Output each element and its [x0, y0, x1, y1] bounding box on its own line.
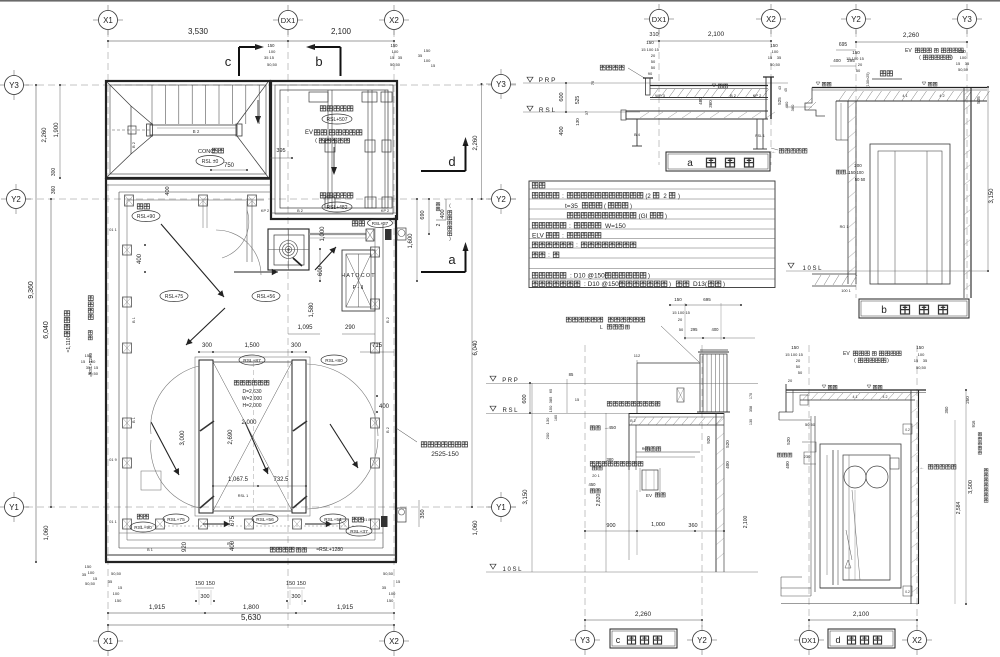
overflow pipe upper right wall	[397, 228, 406, 240]
svg-text:RSL+56: RSL+56	[256, 517, 274, 523]
svg-text:RSL+80: RSL+80	[325, 358, 343, 364]
svg-text:Y1: Y1	[9, 503, 19, 512]
main roof left wall outer	[105, 178, 107, 562]
cubicle center dashed line	[253, 362, 255, 511]
grid line Y2 section b	[855, 30, 857, 298]
section c wall verticals below room	[628, 470, 630, 560]
svg-text:RSL+75: RSL+75	[167, 517, 185, 523]
svg-text:B 1: B 1	[132, 317, 136, 323]
dim ticks rows bottom	[198, 590, 200, 605]
svg-text:400: 400	[165, 186, 171, 195]
svg-text:RSL 1: RSL 1	[238, 494, 248, 498]
svg-text:35 15: 35 15	[264, 55, 275, 60]
svg-text:RSL+482: RSL+482	[327, 205, 348, 211]
label RSL+75 ellipse	[160, 291, 188, 302]
svg-text:3,500: 3,500	[968, 480, 974, 494]
grid line X2 section d	[916, 345, 918, 628]
railing line right	[374, 228, 376, 540]
cubicle dim line top	[199, 351, 306, 353]
label RSL+507 ellipse	[322, 114, 352, 124]
section b 10SL line	[786, 270, 988, 272]
slope arrow horizontal to drain	[234, 271, 278, 273]
grid line X2 section a	[770, 30, 772, 165]
svg-text:675: 675	[230, 515, 236, 526]
svg-text:RSL+51: RSL+51	[324, 517, 342, 523]
svg-text:150: 150	[85, 564, 92, 569]
section a roof slab top line	[650, 85, 768, 87]
svg-text:2,820: 2,820	[596, 494, 602, 507]
svg-text:150: 150	[958, 49, 966, 54]
svg-text:65: 65	[548, 388, 553, 393]
dim line 1915-1800-1915	[108, 612, 394, 614]
section d machine outer box	[820, 444, 901, 588]
svg-text:3,000: 3,000	[180, 430, 186, 446]
svg-text:480: 480	[784, 101, 789, 108]
svg-text:520: 520	[786, 437, 791, 445]
svg-text:112: 112	[634, 353, 641, 358]
svg-text:P R P: P R P	[502, 378, 518, 384]
svg-text:(GI: (GI	[638, 213, 647, 220]
section c sekichou label upper	[607, 401, 660, 406]
svg-text:): )	[630, 204, 632, 210]
svg-text:916: 916	[971, 420, 976, 428]
svg-text:90: 90	[648, 71, 653, 76]
svg-text:d: d	[835, 635, 840, 645]
grid line Y3 section b	[966, 30, 968, 298]
notes table row lines	[529, 188, 775, 190]
svg-text:—: —	[846, 170, 850, 175]
svg-text:50 50: 50 50	[855, 177, 866, 182]
section a right column	[756, 119, 758, 149]
section b roof top line	[812, 87, 987, 89]
svg-text:B 2: B 2	[630, 419, 635, 423]
svg-text:2,584: 2,584	[956, 502, 962, 515]
section c EV roof hatched	[629, 424, 724, 426]
section b roof second line	[812, 89, 987, 91]
section a I-beam left	[632, 118, 642, 120]
svg-text:15 100 15: 15 100 15	[785, 352, 804, 357]
svg-text:X2: X2	[912, 636, 922, 645]
scupper dark block bottom-right	[381, 516, 388, 527]
svg-text:35: 35	[923, 358, 928, 363]
section d roof level texts	[822, 385, 826, 388]
svg-text:15: 15	[390, 55, 395, 60]
svg-text:←: ←	[772, 149, 777, 155]
section c EV roof slab	[629, 413, 724, 415]
svg-text:=RSL+1280: =RSL+1280	[316, 547, 343, 553]
grid line Y1 horizontal	[26, 506, 516, 508]
door arc upper-right	[307, 364, 378, 436]
grid bubble Y3 top-section-b	[952, 18, 982, 20]
section a left parapet cap	[643, 77, 653, 79]
svg-text:B 2: B 2	[193, 129, 200, 134]
stair block inner wall line	[110, 85, 266, 174]
svg-text:W=150: W=150	[605, 223, 626, 230]
section c door bracket	[640, 468, 660, 492]
section b left overhang gutter	[805, 88, 825, 117]
svg-text:400: 400	[833, 58, 841, 63]
section c 10SL line	[486, 571, 758, 573]
grid line Y2 section c	[701, 345, 703, 628]
section c RSL level	[490, 406, 496, 411]
section d step detail mid	[802, 442, 816, 464]
roof drain outer square	[268, 229, 309, 270]
section a slab bottom line	[650, 99, 768, 101]
svg-text:400: 400	[559, 126, 565, 135]
svg-text:50,50: 50,50	[111, 571, 122, 576]
svg-text:: D10 @150(: : D10 @150(	[570, 273, 608, 280]
section a canopy leftcap	[621, 110, 626, 120]
svg-text:100: 100	[88, 570, 95, 575]
svg-text:2: 2	[436, 223, 442, 226]
grid line DX1 vertical plan	[287, 30, 289, 628]
svg-text:2,100: 2,100	[743, 516, 749, 529]
svg-text:2,690: 2,690	[228, 429, 234, 445]
svg-text:R S L: R S L	[502, 408, 518, 414]
svg-text:300: 300	[202, 343, 213, 349]
svg-text:5,630: 5,630	[241, 613, 262, 622]
main roof bottom wall second line	[106, 554, 396, 556]
section d right wall hatch	[911, 392, 919, 398]
svg-text:KP 2: KP 2	[753, 93, 762, 98]
svg-text:150 150: 150 150	[286, 581, 306, 587]
grid bubble Y2 left	[1, 198, 31, 200]
svg-text:130: 130	[575, 118, 580, 126]
svg-text:(: (	[604, 204, 606, 210]
section b right wall	[963, 88, 965, 299]
EV block inner face	[280, 90, 388, 208]
svg-text:360: 360	[51, 186, 57, 195]
section d left parapet	[785, 384, 787, 412]
svg-text:(130×25): (130×25)	[866, 72, 870, 88]
svg-text:Y3: Y3	[496, 80, 506, 89]
svg-text:=1,110: =1,110	[66, 337, 72, 352]
stair hip diagonal top-left	[107, 82, 131, 106]
section c dim line 2260	[585, 619, 702, 621]
svg-text:b: b	[315, 54, 322, 69]
bottom wall posts	[156, 519, 165, 529]
svg-text:350: 350	[944, 406, 949, 414]
svg-text:0.2: 0.2	[905, 590, 910, 594]
label RSL+90 ellipse top-left	[132, 211, 160, 222]
section c parapet rail left of louver	[637, 362, 700, 364]
slope arrow top-left to drain	[161, 224, 224, 297]
section c kabegata label	[590, 426, 600, 430]
svg-text:380: 380	[607, 457, 615, 462]
section b title box	[859, 299, 969, 318]
svg-text:50: 50	[798, 370, 803, 375]
svg-text:b: b	[881, 305, 887, 316]
grid line X1 vertical	[107, 30, 109, 628]
section c PRP level	[490, 376, 496, 381]
svg-text:4 2: 4 2	[939, 94, 944, 98]
label bousui sheet upper	[320, 106, 353, 111]
section a canopy slab	[626, 110, 768, 112]
svg-text:100: 100	[113, 591, 120, 596]
stair hip vertical left	[130, 106, 132, 154]
svg-text:1,500: 1,500	[244, 343, 260, 349]
section c totenjou label	[645, 447, 661, 451]
label RSL+56 ellipse	[252, 291, 280, 302]
cubicle surround rect thin	[195, 357, 310, 516]
scupper hatched block	[366, 229, 374, 241]
svg-text:100: 100	[772, 49, 779, 54]
svg-text:01 1: 01 1	[109, 228, 116, 232]
section b right wall hatch	[964, 89, 971, 95]
dim line 9360 vertical	[35, 85, 37, 562]
dim line 1900 vertical	[59, 85, 61, 178]
svg-text:15 100 15: 15 100 15	[672, 310, 691, 315]
svg-text:295: 295	[691, 327, 699, 332]
section c wall left	[628, 413, 630, 470]
svg-text:DX1: DX1	[802, 636, 817, 645]
svg-text:600: 600	[318, 265, 324, 276]
svg-text:50 50: 50 50	[805, 422, 816, 427]
grid bubble Y3 bottom-section-c	[570, 639, 600, 641]
section a texts in slab	[712, 84, 716, 87]
door arc lower-right	[307, 439, 378, 509]
svg-text:75: 75	[590, 80, 595, 85]
svg-text:): )	[678, 194, 680, 200]
svg-text:Y1: Y1	[496, 503, 506, 512]
svg-text:295: 295	[847, 58, 855, 63]
svg-text:35: 35	[418, 53, 423, 58]
svg-text:EV: EV	[305, 130, 313, 136]
svg-text:400: 400	[785, 461, 790, 469]
svg-text:01 9: 01 9	[109, 458, 116, 462]
svg-text:150: 150	[770, 43, 778, 48]
svg-text:100: 100	[269, 49, 276, 54]
svg-text:9,360: 9,360	[28, 281, 35, 299]
section b left wall lines	[847, 101, 849, 284]
svg-text:300: 300	[200, 594, 209, 600]
stair left landing dashed	[112, 129, 150, 131]
svg-text:(2: (2	[645, 194, 651, 200]
svg-text:3,150: 3,150	[523, 489, 529, 505]
section d bottom machine lines	[820, 587, 901, 589]
svg-text:15: 15	[575, 397, 580, 402]
svg-text:50,50: 50,50	[88, 371, 99, 376]
svg-text:a: a	[687, 158, 693, 169]
svg-text:Y2: Y2	[697, 636, 707, 645]
main roof right wall outer	[395, 215, 397, 562]
svg-text:X2: X2	[389, 16, 399, 25]
svg-text:505: 505	[976, 96, 981, 104]
roof drain corner diagonal thick	[293, 258, 302, 266]
EV block top pad 1	[309, 92, 328, 102]
grid line DX1 section a	[658, 30, 660, 165]
svg-text:15: 15	[768, 55, 773, 60]
svg-text:Y3: Y3	[580, 636, 590, 645]
svg-text:): )	[665, 214, 667, 220]
railing line top	[127, 199, 264, 201]
grid bubble Y3 left	[0, 84, 29, 86]
grid bubble Y3 right-of-plan	[486, 83, 516, 85]
svg-text:20: 20	[858, 62, 863, 67]
EV block column line 1	[327, 90, 329, 208]
svg-text:130: 130	[545, 417, 550, 424]
EV block bottom pad 1	[325, 197, 335, 208]
svg-text:1,060: 1,060	[473, 520, 479, 536]
section d left wall below	[810, 416, 812, 596]
label mizusita bottom	[352, 517, 363, 522]
svg-text:35: 35	[965, 61, 970, 66]
svg-text:15: 15	[118, 585, 123, 590]
grid bubble X2 bottom-section-d	[902, 639, 932, 641]
section c shaft wall right	[715, 413, 717, 572]
svg-text:400: 400	[440, 209, 446, 218]
svg-text:50,50: 50,50	[390, 62, 401, 67]
left wall posts	[123, 245, 132, 255]
label RSL+90 bottom ellipse	[130, 522, 156, 532]
EV block mid pad 1	[325, 140, 335, 152]
svg-text:RSL+90: RSL+90	[137, 214, 155, 220]
cubicle text block	[234, 380, 269, 385]
svg-text:600: 600	[559, 92, 565, 101]
section a RSL level line	[523, 111, 640, 113]
section d machine inner rect	[843, 455, 890, 580]
svg-text:600: 600	[522, 394, 528, 403]
svg-text:300: 300	[51, 168, 57, 177]
svg-text:45: 45	[784, 88, 788, 92]
section d right wall	[910, 390, 912, 604]
svg-text:1,915: 1,915	[337, 604, 354, 611]
main roof top parapet under stair	[106, 178, 271, 180]
svg-text:150: 150	[674, 297, 682, 302]
svg-text:450: 450	[589, 482, 597, 487]
grid line Y3 horizontal	[26, 84, 516, 86]
EV block column line 2	[367, 90, 369, 208]
label RSL+37 bottom ellipse	[346, 526, 372, 536]
svg-text:→: →	[655, 401, 660, 406]
svg-text:3,150: 3,150	[989, 188, 995, 204]
EV block bottom pad 3	[382, 197, 392, 208]
svg-text:1,060: 1,060	[44, 525, 50, 541]
svg-text:100: 100	[89, 359, 96, 364]
label RSL+56 bottom ellipse	[252, 514, 278, 524]
svg-text:50: 50	[856, 68, 861, 73]
section c PRP line	[486, 383, 758, 385]
grid bubble Y2 right-of-plan	[486, 198, 516, 200]
svg-text:6,040: 6,040	[43, 321, 50, 339]
svg-text:2,260: 2,260	[635, 611, 652, 618]
svg-text:4 1: 4 1	[853, 395, 858, 399]
stair strip mid lines	[157, 127, 236, 129]
section b 10SL level	[788, 263, 794, 268]
section b overhang hatch	[806, 98, 812, 104]
section c note leader	[661, 326, 699, 362]
label RSL+75 bottom ellipse	[163, 514, 189, 524]
svg-text:290: 290	[345, 325, 356, 331]
svg-text:350: 350	[420, 509, 426, 518]
svg-text:20: 20	[788, 378, 793, 383]
svg-text:RSL ±0: RSL ±0	[202, 159, 219, 165]
roof drain cross lines	[268, 249, 309, 251]
svg-text:50,50: 50,50	[958, 67, 969, 72]
svg-text:400: 400	[712, 327, 720, 332]
section a slab hatched band	[650, 97, 768, 99]
section a label koloft	[600, 65, 624, 70]
svg-text:RSL+90: RSL+90	[134, 525, 152, 531]
svg-text:50,50: 50,50	[383, 571, 394, 576]
svg-text:: D10 @150(: : D10 @150(	[584, 281, 622, 288]
label alumi tesuri vertical left	[88, 296, 93, 320]
scupper dark block at wall	[385, 229, 392, 240]
cubicle left bar hatch	[200, 421, 214, 431]
svg-text:15: 15	[81, 359, 86, 364]
svg-text:RSL+507: RSL+507	[327, 117, 348, 123]
svg-text:KP 2: KP 2	[261, 209, 269, 213]
svg-text:750: 750	[224, 163, 235, 169]
svg-text:20: 20	[678, 317, 683, 322]
door arc below railing	[222, 210, 249, 258]
svg-text:X2: X2	[389, 637, 399, 646]
stair hip diagonal to strip top	[131, 106, 152, 124]
svg-text:EV: EV	[646, 493, 652, 498]
svg-text:X2: X2	[766, 15, 776, 24]
svg-text:150: 150	[115, 598, 122, 603]
section d roof hatch band	[800, 399, 915, 401]
svg-text:Y2: Y2	[11, 195, 21, 204]
svg-text:0.2: 0.2	[905, 428, 910, 432]
main roof parapet inner bottom	[119, 547, 383, 549]
grid bubble X2 top-plan	[379, 19, 409, 21]
svg-text:RG 1: RG 1	[840, 225, 849, 229]
svg-text:X1: X1	[103, 637, 113, 646]
stair treads	[151, 85, 153, 124]
notes row okujo bousui	[532, 193, 559, 198]
EV block mid pad 2	[365, 140, 375, 152]
section b shaft outer box	[870, 144, 950, 284]
svg-text:130: 130	[749, 419, 753, 425]
svg-text:EV: EV	[843, 351, 850, 357]
stair central landing strip	[150, 125, 237, 135]
svg-text:520: 520	[725, 440, 730, 448]
main roof parapet inner lines left	[118, 192, 120, 548]
svg-text:150: 150	[387, 598, 394, 603]
EV roof slope arrow down	[333, 147, 335, 169]
svg-text:1,600: 1,600	[408, 233, 414, 249]
svg-text:RSL+87: RSL+87	[243, 358, 261, 364]
svg-text:85: 85	[569, 372, 574, 377]
label alumi tesuri tenba RSL+1280	[270, 547, 294, 552]
svg-text:35: 35	[398, 55, 403, 60]
svg-text:100: 100	[918, 352, 925, 357]
section d roof second line	[786, 392, 926, 394]
svg-text:150 150: 150 150	[195, 581, 215, 587]
label mizukami bottom	[137, 514, 148, 519]
EV block top pad 2	[362, 92, 377, 102]
svg-text:50: 50	[796, 364, 801, 369]
section d hanging rod	[846, 530, 852, 560]
label mizusita RSL+37 top-right	[352, 221, 364, 226]
svg-text:X1: X1	[103, 16, 113, 25]
EV block mid pad 3	[382, 140, 391, 152]
svg-text:920: 920	[182, 541, 188, 552]
svg-text:35: 35	[86, 365, 91, 370]
svg-text:2,260: 2,260	[903, 32, 920, 39]
svg-text:←: ←	[920, 465, 925, 471]
section d B2 marks	[800, 395, 808, 405]
svg-text:150: 150	[791, 345, 799, 350]
svg-text:35: 35	[382, 585, 387, 590]
section c louver cap	[698, 351, 729, 353]
section d overhead label	[984, 469, 988, 503]
EV block bottom pad 2	[365, 197, 376, 208]
svg-text:200: 200	[545, 432, 550, 439]
svg-text:2,100: 2,100	[853, 611, 870, 618]
slope arrow bottom water-right 2	[305, 523, 332, 525]
